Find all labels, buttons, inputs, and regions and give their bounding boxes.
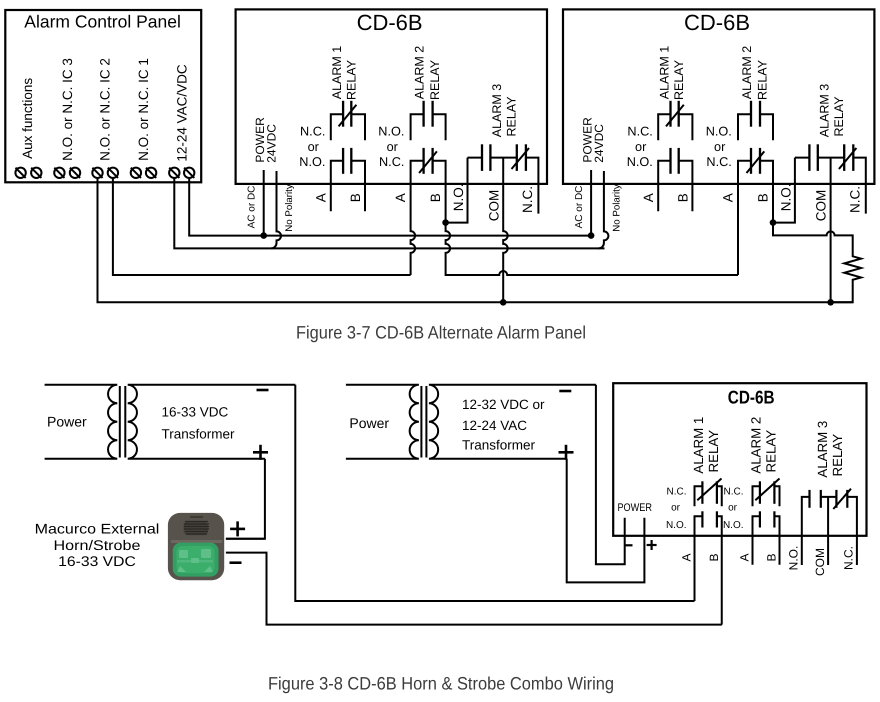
svg-text:Transformer: Transformer: [162, 426, 236, 441]
svg-text:RELAY: RELAY: [764, 430, 779, 473]
svg-text:N.O.: N.O.: [666, 520, 687, 531]
svg-text:or: or: [728, 503, 738, 514]
svg-text:Figure 3-8 CD-6B Horn & Strobe: Figure 3-8 CD-6B Horn & Strobe Combo Wir…: [268, 674, 614, 694]
svg-text:Horn/Strobe: Horn/Strobe: [54, 537, 141, 553]
svg-text:N.O. or N.C. IC 3: N.O. or N.C. IC 3: [60, 58, 75, 161]
svg-text:A: A: [738, 553, 752, 561]
svg-text:N.C.: N.C.: [842, 546, 856, 570]
svg-text:Aux functions: Aux functions: [20, 78, 35, 159]
svg-text:POWER: POWER: [617, 502, 652, 514]
svg-text:or: or: [671, 503, 681, 514]
svg-text:12-24 VAC: 12-24 VAC: [462, 418, 527, 433]
svg-text:ALARM 2: ALARM 2: [749, 417, 764, 474]
svg-text:COM: COM: [813, 548, 827, 576]
svg-text:Macurco External: Macurco External: [35, 521, 160, 537]
svg-text:N.C.: N.C.: [667, 487, 687, 498]
svg-text:Alarm Control Panel: Alarm Control Panel: [24, 12, 181, 32]
svg-text:RELAY: RELAY: [706, 430, 721, 473]
svg-text:N.O. or N.C. IC 2: N.O. or N.C. IC 2: [98, 58, 113, 161]
svg-text:CD-6B: CD-6B: [728, 386, 775, 407]
svg-text:N.O. or N.C. IC 1: N.O. or N.C. IC 1: [136, 58, 151, 161]
svg-text:B: B: [707, 553, 721, 561]
svg-text:N.O.: N.O.: [723, 520, 744, 531]
svg-text:Power: Power: [349, 415, 389, 431]
svg-text:ALARM 1: ALARM 1: [691, 417, 706, 474]
svg-text:B: B: [765, 553, 779, 561]
svg-text:12-32 VDC or: 12-32 VDC or: [462, 397, 545, 412]
svg-text:16-33 VDC: 16-33 VDC: [58, 553, 136, 569]
svg-text:Transformer: Transformer: [462, 437, 536, 452]
svg-text:N.O.: N.O.: [787, 546, 801, 571]
svg-text:RELAY: RELAY: [830, 434, 845, 477]
svg-text:A: A: [680, 553, 694, 561]
svg-text:16-33 VDC: 16-33 VDC: [162, 405, 229, 420]
svg-text:ALARM 3: ALARM 3: [815, 421, 830, 478]
svg-text:Figure 3-7 CD-6B Alternate Ala: Figure 3-7 CD-6B Alternate Alarm Panel: [296, 323, 586, 343]
svg-text:12-24 VAC/VDC: 12-24 VAC/VDC: [174, 64, 189, 162]
svg-text:N.C.: N.C.: [724, 487, 744, 498]
svg-text:Power: Power: [47, 414, 87, 430]
